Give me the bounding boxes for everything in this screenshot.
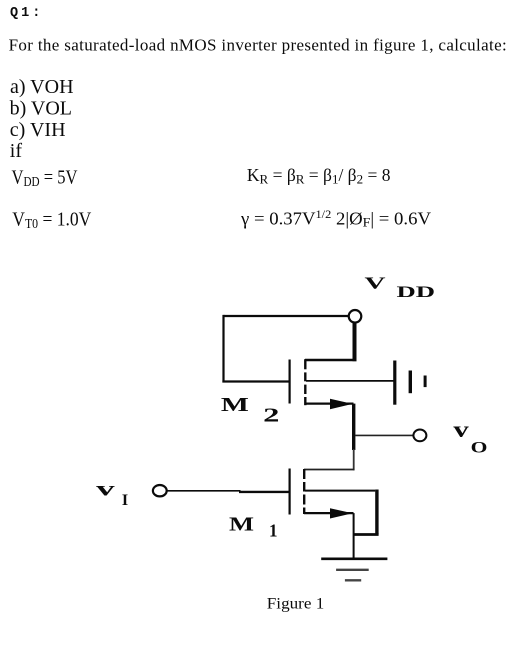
svg-text:For the saturated-load nMOS in: For the saturated-load nMOS inverter pre… <box>9 35 507 54</box>
svg-text:VDD = 5V: VDD = 5V <box>12 167 78 190</box>
substrate bias symbol bar 1 <box>393 361 396 405</box>
label vI <box>96 477 128 510</box>
svg-text:Q1:: Q1: <box>10 6 43 21</box>
wire input to M1 gate segment 1 <box>167 490 241 492</box>
svg-text:c) VIH: c) VIH <box>10 119 66 141</box>
transistor M1 channel (dashed) <box>303 469 305 514</box>
label M2 <box>221 394 280 427</box>
label vO <box>453 417 487 457</box>
node vI input terminal circle <box>153 485 167 496</box>
node VO terminal circle <box>413 430 426 442</box>
wire M2 source drop (thick) <box>352 404 355 450</box>
transistor M1 source arrow <box>330 508 353 518</box>
svg-text:v: v <box>453 417 469 442</box>
svg-text:VT0 = 1.0V: VT0 = 1.0V <box>12 208 91 231</box>
svg-text:γ = 0.37V1/2 2|ØF| = 0.6V: γ = 0.37V1/2 2|ØF| = 0.6V <box>240 208 431 229</box>
wire VDD top rail <box>224 315 349 317</box>
wire output node horizontal <box>355 434 413 436</box>
ground symbol bar 2 <box>336 569 369 571</box>
svg-text:2: 2 <box>263 404 279 426</box>
ground symbol bar 3 <box>345 579 361 581</box>
wire M1 drain horizontal <box>304 469 355 471</box>
svg-text:KR = βR = β1/ β2 = 8: KR = βR = β1/ β2 = 8 <box>247 165 391 186</box>
wire gate-loop left vertical <box>222 315 224 383</box>
wire M2 source horizontal <box>306 403 354 405</box>
wire M1 source horizontal <box>304 512 354 514</box>
transistor M1 gate bar <box>289 469 291 515</box>
svg-text:I: I <box>122 492 128 509</box>
transistor M2 source arrow <box>330 399 353 410</box>
svg-text:DD: DD <box>397 284 436 301</box>
substrate bias symbol bar 3 <box>424 376 427 388</box>
wire M1 source to ground <box>353 513 355 558</box>
label M1 <box>229 514 278 541</box>
svg-text:if: if <box>10 140 23 162</box>
node VDD terminal circle <box>349 310 362 323</box>
wire M2 source drop to M1 drain (thin) <box>353 449 355 470</box>
svg-text:M: M <box>221 394 249 416</box>
substrate bias symbol bar 2 <box>409 371 412 394</box>
wire M1 body right vertical <box>375 490 378 535</box>
wire M1 body horizontal <box>305 490 375 492</box>
svg-text:Figure 1: Figure 1 <box>267 596 325 613</box>
transistor M2 gate bar <box>289 360 291 404</box>
wire VDD drop to M2 drain <box>353 323 357 362</box>
transistor M2 channel (dashed) <box>304 359 306 405</box>
wire M2 body horizontal <box>306 380 394 382</box>
svg-text:b) VOL: b) VOL <box>10 98 72 120</box>
ground symbol bar 1 <box>321 557 387 560</box>
svg-text:M: M <box>229 514 254 536</box>
svg-text:v: v <box>96 477 115 501</box>
label VDD <box>365 274 436 302</box>
svg-text:1: 1 <box>269 521 278 541</box>
wire M2 gate feedback horizontal <box>222 380 288 382</box>
wire M1 body bottom horizontal <box>354 533 379 536</box>
svg-text:O: O <box>471 440 488 457</box>
wire M2 drain horizontal <box>305 359 357 362</box>
svg-text:a) VOH: a) VOH <box>10 76 74 98</box>
wire input to M1 gate segment 2 <box>239 491 289 493</box>
svg-text:V: V <box>365 274 387 293</box>
